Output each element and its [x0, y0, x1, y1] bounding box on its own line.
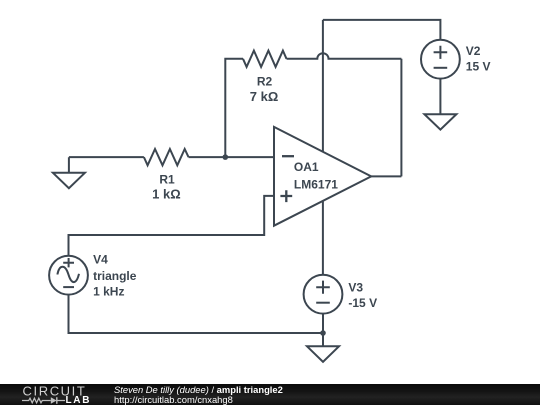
- V2 plus sign: [434, 46, 448, 59]
- resistor R1: [144, 149, 189, 165]
- wire op-amp V- supply to V3: [322, 201, 324, 275]
- V4 sine wave symbol: [57, 267, 79, 282]
- wire op-amp V+ supply vertical: [322, 20, 324, 152]
- node junction dot at inverting input: [223, 154, 229, 160]
- svg-text:1 kHz: 1 kHz: [93, 285, 124, 299]
- svg-text:R2: R2: [257, 75, 273, 89]
- V4 minus sign: [63, 286, 74, 288]
- wire V4 bottom to V3 bottom node: [69, 295, 324, 333]
- footer bar: [0, 384, 540, 405]
- op-amp OA1 triangle: [274, 127, 371, 226]
- svg-text:-15 V: -15 V: [348, 296, 377, 310]
- node junction dot at V3 bottom: [320, 330, 326, 336]
- svg-text:V4: V4: [93, 252, 108, 266]
- svg-text:LAB: LAB: [66, 395, 92, 405]
- svg-text:LM6171: LM6171: [294, 178, 338, 192]
- svg-text:V3: V3: [348, 281, 363, 295]
- svg-text:15 V: 15 V: [466, 60, 491, 74]
- wire non-inverting input step: [69, 196, 275, 256]
- wire V2 bottom lead: [439, 79, 441, 115]
- ground (below V3): [307, 333, 339, 362]
- V2 minus sign: [434, 67, 448, 69]
- ground (left, input): [53, 157, 85, 188]
- wire R1 right lead to inverting input: [189, 156, 275, 158]
- V4 plus sign: [63, 258, 74, 267]
- svg-text:7 kΩ: 7 kΩ: [250, 89, 279, 104]
- footer credit text: [114, 385, 283, 405]
- V3 minus sign: [316, 302, 330, 304]
- CircuitLab logo resistor-diode symbol: [22, 398, 65, 403]
- wire op-amp output: [371, 175, 401, 177]
- svg-text:triangle: triangle: [93, 269, 137, 283]
- op-amp non-inverting input plus sign: [280, 190, 292, 202]
- wire feedback vertical from output: [400, 59, 402, 177]
- wire R2 left lead and vertical to inverting node: [225, 59, 243, 157]
- svg-text:OA1: OA1: [294, 160, 319, 174]
- resistor R2: [243, 51, 287, 67]
- wire R2 right lead with hop over supply wire: [287, 53, 402, 59]
- V3 plus sign: [316, 281, 330, 294]
- ground (below V2): [424, 114, 456, 129]
- op-amp inverting input minus sign: [282, 155, 294, 157]
- voltage source V2 circle: [421, 40, 460, 79]
- svg-text:R1: R1: [159, 172, 175, 186]
- wire R1 left lead from ground: [69, 156, 144, 158]
- wire top rail from supply node to V2: [323, 20, 441, 40]
- svg-text:1 kΩ: 1 kΩ: [152, 187, 181, 202]
- svg-text:V2: V2: [466, 44, 481, 58]
- voltage source V4 circle: [49, 256, 88, 295]
- wire V3 bottom lead: [322, 314, 324, 333]
- voltage source V3 circle: [304, 275, 343, 314]
